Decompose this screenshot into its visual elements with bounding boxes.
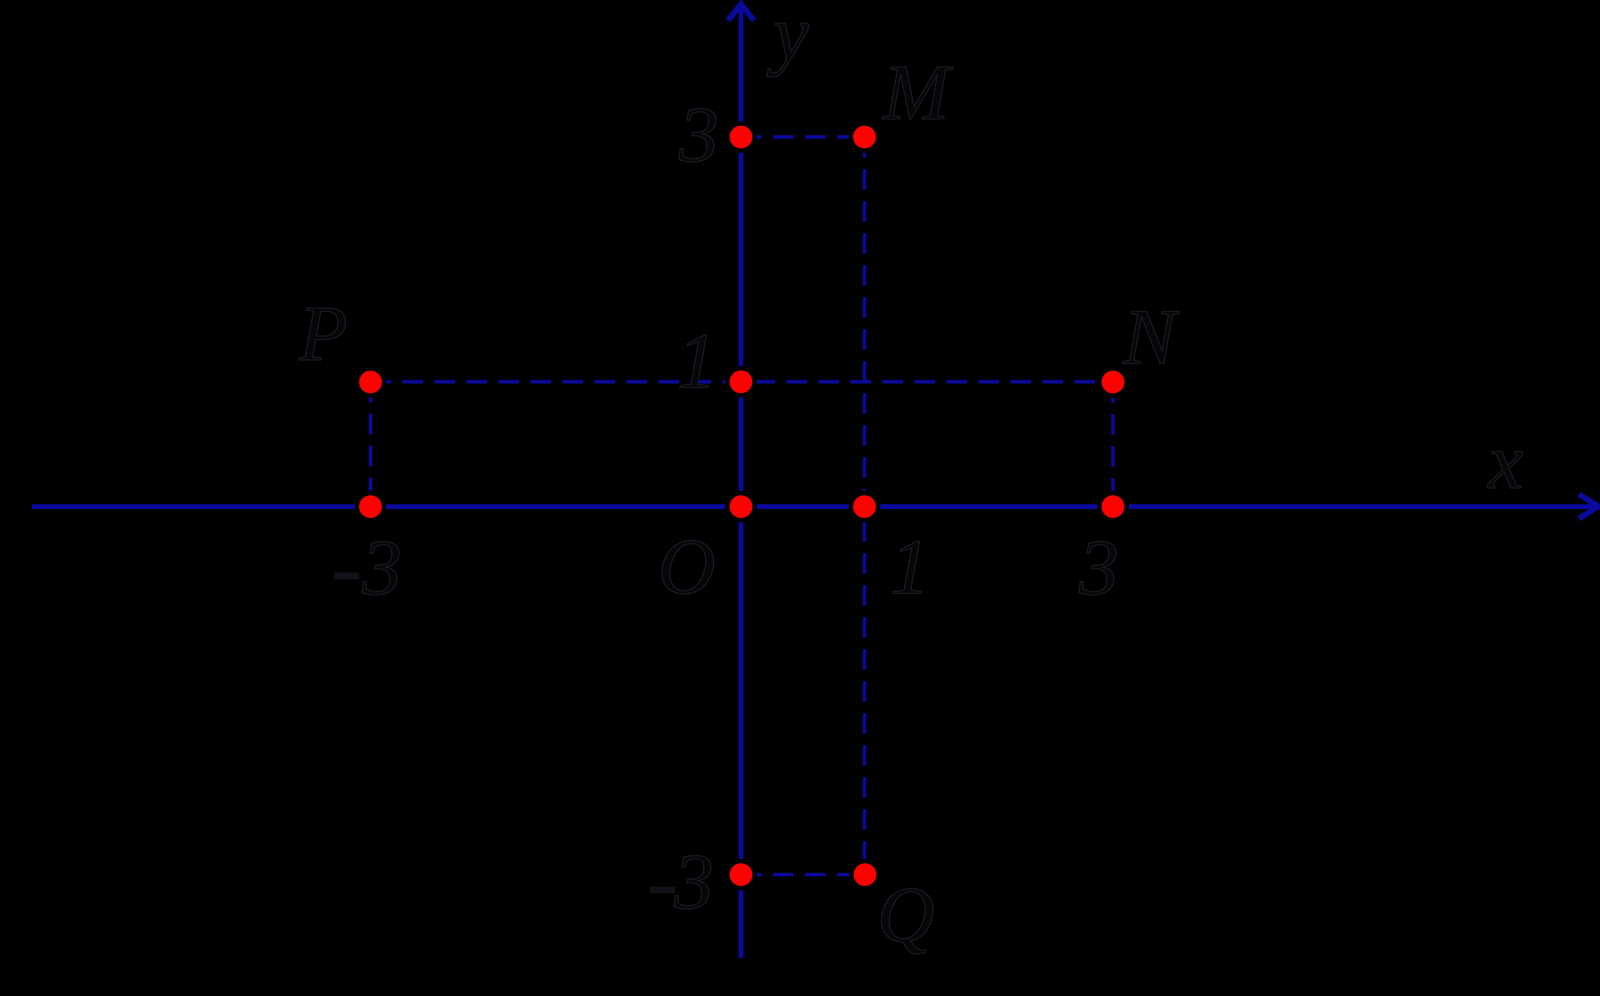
svg-text:y: y (767, 0, 810, 78)
svg-text:Q: Q (877, 871, 934, 959)
svg-text:1: 1 (890, 524, 930, 612)
svg-text:3: 3 (678, 91, 719, 179)
svg-text:O: O (658, 523, 715, 611)
svg-text:P: P (298, 290, 348, 378)
svg-text:3: 3 (673, 838, 714, 926)
svg-text:M: M (882, 49, 953, 137)
svg-text:3: 3 (1078, 524, 1119, 612)
svg-text:1: 1 (677, 318, 717, 406)
svg-text:3: 3 (361, 524, 402, 612)
svg-text:N: N (1122, 294, 1180, 382)
svg-text:x: x (1487, 418, 1523, 506)
